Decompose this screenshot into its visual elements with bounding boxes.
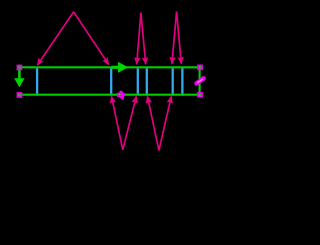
green right arrow shaft on top edge	[112, 66, 120, 69]
slit B2	[110, 68, 112, 93]
V3 right ray (below bar)	[123, 96, 137, 150]
V3 left ray (below bar)	[112, 96, 123, 150]
incident ray (triangle left leg)	[37, 12, 73, 65]
bar bottom edge	[19, 94, 201, 96]
star marker on bottom edge	[117, 91, 125, 100]
V1 left ray	[137, 13, 141, 65]
reflected ray (triangle right leg)	[74, 12, 109, 65]
V4 right ray (below bar)	[159, 96, 171, 150]
slit B6	[181, 68, 183, 93]
V2 right ray	[177, 12, 182, 64]
selected squiggle at right edge	[195, 78, 204, 85]
slit B1	[36, 68, 38, 93]
handle left top	[17, 65, 23, 71]
green right arrow head	[118, 62, 128, 73]
left green down arrow head	[14, 78, 24, 87]
handle left bottom	[17, 92, 23, 98]
handle right top	[197, 65, 203, 71]
V1 right ray	[141, 13, 146, 65]
slit B3	[137, 68, 139, 93]
left green down arrow shaft	[18, 67, 21, 79]
bar top edge	[19, 66, 201, 68]
slit B5	[172, 68, 174, 93]
V4 left ray (below bar)	[147, 96, 159, 150]
slit B4	[146, 68, 148, 93]
handle right bottom	[197, 92, 203, 98]
bar right edge	[199, 66, 201, 95]
V2 left ray	[172, 12, 177, 64]
